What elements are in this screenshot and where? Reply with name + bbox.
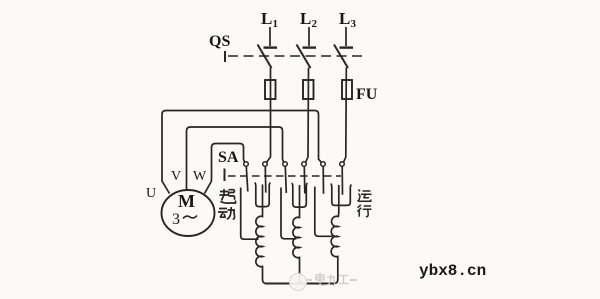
svg-text:L: L: [300, 9, 311, 28]
bottom star-point bus wire: [265, 283, 335, 285]
wire outer path: SA pole5 up over to motor U: [162, 111, 321, 194]
text 动 (start, lower char): [218, 207, 235, 219]
text 行 (run, lower char): [357, 205, 371, 217]
switch SA blade 2: [264, 167, 267, 193]
svg-text:ybx8.cn: ybx8.cn: [419, 262, 486, 280]
switch SA blade 5: [322, 167, 324, 194]
watermark dash right: [350, 279, 357, 281]
wire QS pole1 to fuse and down to SA: [267, 68, 271, 163]
run jaw U2: [292, 183, 308, 207]
svg-text:U: U: [146, 186, 156, 201]
svg-text:L: L: [261, 9, 272, 28]
switch SA pivot circle 1: [244, 162, 249, 167]
svg-text:W: W: [193, 169, 207, 184]
run jaw U3: [331, 184, 352, 206]
wire QS pole2 to fuse and down to SA: [306, 68, 309, 163]
switch SA blade 6: [341, 167, 343, 195]
fuse FU3: [342, 80, 352, 99]
svg-text:QS: QS: [209, 33, 230, 50]
switch QS linkage dashed line: [228, 55, 362, 57]
watermark logo blob: [290, 274, 307, 291]
switch QS pole 2 blade: [297, 45, 311, 69]
run jaw U2 centre conductor: [299, 185, 301, 215]
switch QS pole 3 blade: [334, 45, 348, 69]
wire QS pole3 to fuse and down to SA: [344, 68, 347, 163]
switch SA linkage tick: [224, 169, 226, 182]
wire L1 drop: [269, 27, 271, 46]
wire L3 drop: [345, 27, 347, 46]
text 运 (run, upper char): [357, 190, 371, 202]
switch QS pole 3 contact bar: [340, 46, 354, 48]
node L2 label: [300, 9, 318, 30]
start jaw / tap wire phase 3: [315, 187, 333, 237]
switch SA blade 3: [285, 167, 286, 194]
svg-text:L: L: [339, 9, 350, 28]
wire inner path: SA pole1 up over to motor W: [205, 144, 245, 194]
start jaw / tap wire phase 1: [241, 188, 259, 240]
node L1 label: [261, 9, 278, 30]
fuse FU2: [303, 80, 314, 99]
run jaw U1: [255, 183, 270, 207]
node L3 label: [339, 9, 357, 30]
switch SA pivot circle 5: [321, 162, 326, 167]
autotransformer coil T3: [331, 213, 339, 284]
svg-text:3: 3: [351, 18, 357, 30]
switch SA pivot circle 6: [340, 162, 345, 167]
motor M1 circle: [162, 190, 215, 236]
watermark char 电: [316, 273, 325, 286]
run jaw U1 centre conductor: [262, 185, 264, 214]
svg-text:SA: SA: [218, 149, 239, 166]
watermark char 力: [327, 274, 335, 286]
wire middle path: SA pole3 up over to motor V: [187, 127, 284, 191]
switch QS pole 2 contact bar: [303, 46, 317, 48]
fuse FU1: [265, 80, 276, 99]
autotransformer coil T2: [293, 215, 300, 284]
switch QS pole 1 contact bar: [264, 46, 278, 48]
svg-text:3: 3: [172, 211, 180, 228]
start jaw / tap wire phase 2: [281, 188, 297, 239]
text 起 (start, upper char): [220, 189, 236, 203]
svg-text:FU: FU: [356, 86, 378, 103]
switch SA blade 4: [303, 167, 306, 194]
svg-text:V: V: [171, 169, 181, 184]
watermark dash left: [305, 279, 312, 281]
switch SA pivot circle 4: [302, 162, 307, 167]
switch QS pole 1 blade: [258, 45, 272, 69]
switch SA pivot circle 3: [283, 162, 288, 167]
wire L2 drop: [308, 27, 310, 46]
svg-text:2: 2: [312, 18, 318, 30]
autotransformer coil T1: [256, 214, 267, 284]
switch SA pivot circle 2: [263, 162, 268, 167]
switch SA linkage dashed line: [228, 175, 341, 177]
watermark char 工: [339, 276, 349, 284]
switch SA blade 1: [246, 167, 248, 192]
svg-text:1: 1: [273, 18, 279, 30]
svg-text:M: M: [178, 191, 195, 211]
run jaw U3 centre conductor: [338, 185, 340, 213]
switch QS linkage tick: [224, 51, 226, 62]
